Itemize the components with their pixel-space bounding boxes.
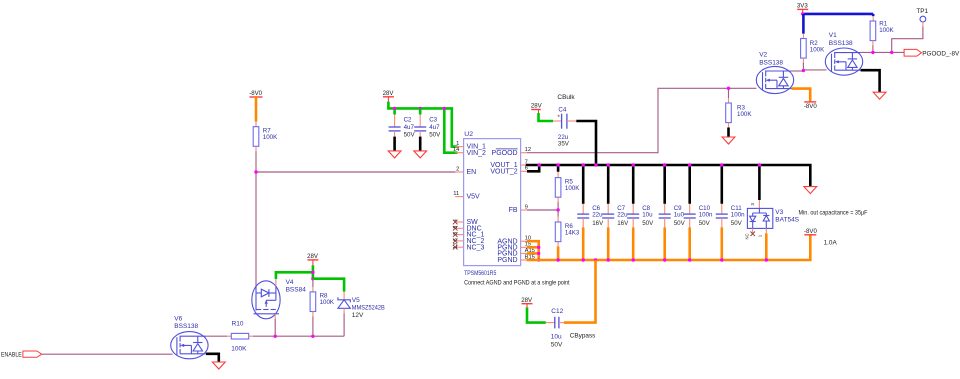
wire bus to V3 (black) [758, 165, 761, 200]
pin 2 EN of U2 [455, 171, 463, 173]
resistor R7 [253, 127, 259, 147]
wire V4 source to 28V (green) [276, 272, 313, 279]
wire C11 to -8V0 bus (orange) [721, 218, 723, 227]
svg-text:35V: 35V [558, 140, 570, 147]
wire C7 to -8V0 bus (orange) [607, 218, 609, 227]
pin 14 VIN_2 of U2 [455, 152, 463, 154]
svg-text:C2: C2 [404, 117, 412, 124]
svg-text:4u7: 4u7 [404, 124, 415, 131]
wire EN net vertical to V4 [255, 172, 257, 286]
node C6 bottom [582, 258, 585, 261]
wire bus to C6 (black) [582, 165, 585, 204]
wire PGOOD node to R3 [728, 88, 730, 98]
node C9 bottom [663, 258, 666, 261]
svg-text:50V: 50V [642, 220, 654, 227]
pin 10 AGND of U2 [521, 240, 527, 242]
capacitor C6 [577, 213, 589, 215]
capacitor C8 [627, 213, 639, 215]
svg-text:BSS138: BSS138 [829, 40, 853, 47]
resistor R1 [870, 21, 876, 41]
power flag 3V3 [797, 8, 808, 10]
wire R10 to V4 gate net [249, 335, 253, 337]
ground under C3 [414, 151, 427, 158]
capacitor C3 [414, 126, 426, 128]
node CBulk join [594, 163, 597, 166]
node TP1 branch [890, 51, 893, 54]
svg-text:10u: 10u [551, 333, 562, 340]
wire VOUT_2 jog (black) [527, 165, 539, 171]
node R6 bottom [556, 258, 559, 261]
node PGOOD-R3 [727, 87, 730, 90]
svg-text:28V: 28V [521, 297, 533, 304]
svg-text:TPSM5601R5: TPSM5601R5 [464, 270, 497, 277]
svg-text:100n: 100n [731, 212, 745, 219]
pin 6 NC_2 of U2 [455, 240, 463, 242]
ground under R3 [722, 137, 735, 144]
resistor R3 [726, 103, 732, 123]
svg-text:R10: R10 [232, 320, 244, 327]
wire 28V green bus to U2 VIN [388, 102, 457, 147]
wire ENABLE to V6 gate [42, 353, 173, 355]
wire 28V to V4/R8 node [312, 260, 314, 265]
svg-text:50V: 50V [674, 220, 686, 227]
svg-text:28V: 28V [383, 90, 395, 97]
wire 3V3 stub [802, 9, 804, 14]
svg-text:PGOOD_-8V: PGOOD_-8V [922, 50, 960, 57]
svg-text:1.0A: 1.0A [824, 240, 838, 247]
wire bus to C9 (black) [663, 165, 666, 204]
wire -8V0 to R7 (orange) [255, 97, 258, 122]
wire 28V to V5 (green) [313, 279, 344, 292]
pin 1 VIN_1 of U2 [455, 146, 463, 148]
svg-text:-8V0: -8V0 [804, 103, 817, 110]
node PGND A15 [537, 252, 540, 255]
transistor V2 BSS138 [756, 66, 793, 93]
transistor V1 BSS138 [825, 48, 862, 75]
wire R2 node to V1 gate [803, 69, 826, 71]
resistor R2 [801, 39, 807, 59]
op-amp U2 TPSM5601R5 module body [464, 139, 521, 266]
wire 28V stub [387, 97, 389, 102]
wire VOUT GND bus (black) [526, 165, 811, 186]
pin 3 DNC of U2 [455, 227, 463, 229]
wire V2 source to -8V0 (orange) [792, 89, 811, 102]
svg-text:50V: 50V [731, 220, 743, 227]
svg-text:-8V0: -8V0 [249, 90, 262, 97]
svg-text:TP1: TP1 [916, 8, 928, 15]
pin 11 V5V of U2 [455, 196, 463, 198]
wire C12 to -8V0 bus (orange) [559, 322, 564, 324]
wire bus to R5 (black) [557, 165, 560, 172]
resistor R10 [231, 333, 248, 339]
svg-text:C3: C3 [429, 117, 437, 124]
pin 4 SW of U2 [455, 221, 463, 223]
svg-text:PGND: PGND [497, 257, 517, 264]
node VOUT2 join [538, 163, 541, 166]
pin 9 FB of U2 [521, 209, 527, 211]
svg-text:V2: V2 [759, 52, 767, 59]
wire TP1 to PGOOD_-8V node [922, 22, 924, 27]
svg-text:100K: 100K [231, 346, 247, 353]
svg-text:50V: 50V [404, 132, 416, 139]
svg-text:Min. out capacitance = 35µF: Min. out capacitance = 35µF [799, 209, 868, 216]
pin 12 PGOOD of U2 [521, 152, 527, 154]
svg-text:16V: 16V [592, 220, 604, 227]
svg-text:CBypass: CBypass [570, 333, 596, 340]
svg-text:V6: V6 [174, 316, 182, 323]
power flag -8V0 (output) [804, 234, 816, 236]
svg-text:PGOOD: PGOOD [492, 150, 518, 157]
power flag 28V (CBulk) [531, 109, 541, 111]
svg-text:100K: 100K [737, 111, 752, 118]
wire V6 source to ground (black) [206, 354, 219, 362]
node 3V3 [801, 12, 804, 15]
node C10 bottom [688, 258, 691, 261]
svg-text:28V: 28V [531, 103, 543, 110]
node PGND B15 [537, 258, 540, 261]
node R5 top [556, 163, 559, 166]
node C8 bottom [632, 258, 635, 261]
pin 6 VOUT_2 of U2 [521, 170, 527, 172]
node 28V-C2 [393, 107, 396, 110]
capacitor C7 [602, 213, 614, 215]
wire C2 green stub [393, 108, 396, 114]
svg-text:V5: V5 [352, 297, 360, 304]
wire C8 to -8V0 bus (orange) [632, 218, 634, 227]
wire C2 to ground (black) [394, 131, 396, 137]
svg-text:3: 3 [750, 203, 755, 206]
wire R1 to PGOOD_-8V node [872, 41, 874, 46]
svg-text:V4: V4 [286, 279, 294, 286]
svg-text:ENABLE: ENABLE [1, 352, 22, 359]
wire C3 green stub [419, 108, 422, 114]
svg-text:BSS138: BSS138 [759, 59, 783, 66]
capacitor C4 CBulk [561, 114, 563, 129]
node R1-V1 drain [871, 51, 874, 54]
svg-text:C4: C4 [558, 107, 566, 114]
node 28V-C3 [419, 107, 422, 110]
svg-text:V1: V1 [829, 32, 837, 39]
wire C10 to -8V0 bus (orange) [689, 218, 691, 227]
svg-text:50V: 50V [699, 220, 711, 227]
svg-text:NC_3: NC_3 [467, 244, 485, 251]
svg-text:V5V: V5V [467, 194, 481, 201]
wire -8V0 output bus (orange) [527, 235, 811, 260]
ground at GND bus end [804, 187, 817, 194]
wire V4 gate down to net [274, 314, 276, 319]
node C11 bottom [720, 258, 723, 261]
node C10 top [688, 163, 691, 166]
wire 28V to C12 (green) [526, 304, 528, 308]
resistor R8 [310, 292, 316, 312]
port flag PGOOD_-8V [904, 49, 921, 56]
svg-text:Connect AGND and PGND at a sin: Connect AGND and PGND at a single point [464, 279, 570, 286]
capacitor C11 [716, 213, 728, 215]
wire bus to C7 (black) [607, 165, 610, 204]
wire FB node to R6 [557, 210, 559, 217]
wire R5 to FB node [557, 197, 559, 202]
node C7 top [607, 163, 610, 166]
node C11 top [720, 163, 723, 166]
wire PGOOD net to V2 gate [527, 88, 756, 152]
wire V2 drain to R2 node [792, 70, 804, 72]
transistor V6 BSS138 [171, 332, 208, 359]
svg-text:10u: 10u [642, 212, 653, 219]
node V3 top [758, 163, 761, 166]
node FB junction [556, 208, 559, 211]
svg-text:22u: 22u [617, 212, 628, 219]
wire AGND PGND bracket (orange) [527, 241, 539, 260]
pin 15 PGND of U2 [521, 246, 527, 248]
svg-text:FB: FB [509, 207, 518, 214]
svg-text:4u7: 4u7 [429, 124, 440, 131]
ground under C2 [388, 151, 401, 158]
wire green to V5 cathode [343, 292, 345, 300]
node C6 top [582, 163, 585, 166]
svg-text:100K: 100K [565, 185, 580, 192]
wire C4 to GND bus (black) [567, 120, 576, 122]
svg-text:BAT54S: BAT54S [775, 217, 799, 224]
svg-text:100K: 100K [263, 134, 278, 141]
pin 13 NC_3 of U2 [455, 246, 463, 248]
wire R7 to EN node [255, 146, 257, 151]
node 28V-VIN2 branch [443, 107, 446, 110]
svg-text:1u0: 1u0 [674, 212, 685, 219]
svg-text:NC: NC [744, 233, 749, 239]
svg-text:14: 14 [453, 147, 460, 153]
wire C9 to -8V0 bus (orange) [664, 218, 666, 227]
capacitor C9 [659, 213, 671, 215]
svg-text:BSS138: BSS138 [174, 323, 198, 330]
node V2 drain / R2 / V1 gate [802, 69, 805, 72]
pin 8 NC_1 of U2 [455, 234, 463, 236]
ground under V1 [873, 92, 886, 99]
power flag 28V (V4) [307, 259, 318, 261]
power flag -8V0 (V2 source) [804, 101, 816, 103]
svg-text:11: 11 [453, 191, 459, 197]
svg-text:50V: 50V [429, 132, 441, 139]
wire bus to C8 (black) [632, 165, 635, 204]
svg-text:3V3: 3V3 [797, 3, 808, 10]
ground under V6 [212, 362, 225, 369]
wire V1 source to ground (black) [861, 70, 880, 92]
wire bus to C10 (black) [688, 165, 691, 204]
svg-text:U2: U2 [464, 131, 473, 138]
svg-text:BSS84: BSS84 [286, 286, 307, 293]
wire FB net [527, 209, 558, 211]
svg-text:VOUT_2: VOUT_2 [490, 168, 517, 175]
svg-text:-8V0: -8V0 [804, 228, 817, 235]
svg-text:1: 1 [456, 141, 459, 147]
resistor R6 [555, 222, 561, 242]
node EN junction [254, 170, 257, 173]
wire R6 to -8V0 bus (orange) [557, 242, 559, 247]
svg-text:2: 2 [456, 166, 459, 172]
svg-text:C12: C12 [551, 308, 563, 315]
power flag 28V (input caps) [383, 96, 394, 98]
node C9 top [663, 163, 666, 166]
PGOOD overline [496, 148, 518, 150]
diode V5 MMSZ5242B zener [338, 297, 350, 308]
wire bus to C11 (black) [720, 165, 723, 204]
capacitor C10 [684, 213, 696, 215]
svg-text:28V: 28V [307, 253, 319, 260]
pin 7 VOUT_1 of U2 [521, 164, 527, 166]
wire 3V3 to R1 (blue) [872, 14, 875, 16]
svg-text:V3: V3 [775, 209, 783, 216]
wire V6 drain to R10 [206, 335, 227, 337]
wire V3 to -8V0 bus (orange) [765, 228, 767, 233]
capacitor C2 [389, 126, 401, 128]
wire R2 to drain node [802, 58, 804, 63]
resistor R5 [555, 178, 561, 198]
wire V1 drain to output flag [861, 51, 905, 53]
wire EN net horizontal [256, 171, 455, 173]
svg-text:EN: EN [467, 169, 477, 176]
capacitor C12 CBypass [554, 317, 556, 329]
pin NC of V3 [752, 228, 754, 233]
power flag -8V0 (top left) [250, 96, 263, 98]
svg-text:12V: 12V [352, 312, 364, 319]
pin B15 PGND of U2 [521, 259, 527, 261]
wire V5 anode to gate net [343, 308, 345, 313]
svg-text:*: * [557, 114, 560, 121]
transistor V4 BSS84 [252, 281, 280, 319]
power flag 28V (CBypass) [522, 303, 533, 305]
wire C3 to ground (black) [419, 131, 421, 137]
wire 28V to C4 (green) [538, 110, 540, 114]
svg-text:14K3: 14K3 [565, 229, 580, 236]
svg-text:CBulk: CBulk [557, 94, 575, 101]
wire node to R8 [312, 279, 314, 287]
node V4 gate [274, 335, 277, 338]
node C7 bottom [607, 258, 610, 261]
node V3 bottom [765, 258, 768, 261]
wire 28V green branch to VIN_2 [444, 108, 457, 152]
pin A15 PGND of U2 [521, 252, 527, 254]
wire R8 to gate net [312, 312, 314, 317]
svg-text:50V: 50V [551, 342, 563, 349]
svg-text:MMSZ5242B: MMSZ5242B [352, 305, 385, 312]
wire 3V3 rail (blue) [803, 13, 874, 16]
node R8 bottom [311, 335, 314, 338]
svg-text:100n: 100n [699, 212, 713, 219]
node 28V-V4 source [311, 271, 314, 274]
node CBypass branch [594, 258, 597, 261]
node C8 top [632, 163, 635, 166]
svg-text:VIN_2: VIN_2 [467, 150, 487, 157]
svg-text:100K: 100K [810, 46, 825, 53]
wire C6 to -8V0 bus (orange) [582, 218, 584, 227]
svg-text:22u: 22u [592, 212, 603, 219]
svg-text:100K: 100K [320, 299, 335, 306]
wire 3V3 to R2 (blue) [802, 14, 805, 34]
node 28V-R8-V5 [311, 277, 314, 280]
node PGND15 [537, 246, 540, 249]
svg-text:100K: 100K [879, 27, 894, 34]
diode V3 BAT54S [747, 208, 772, 228]
svg-text:16V: 16V [617, 220, 629, 227]
test point TP1 [920, 16, 926, 22]
wire R3 to ground (black) [728, 123, 730, 128]
